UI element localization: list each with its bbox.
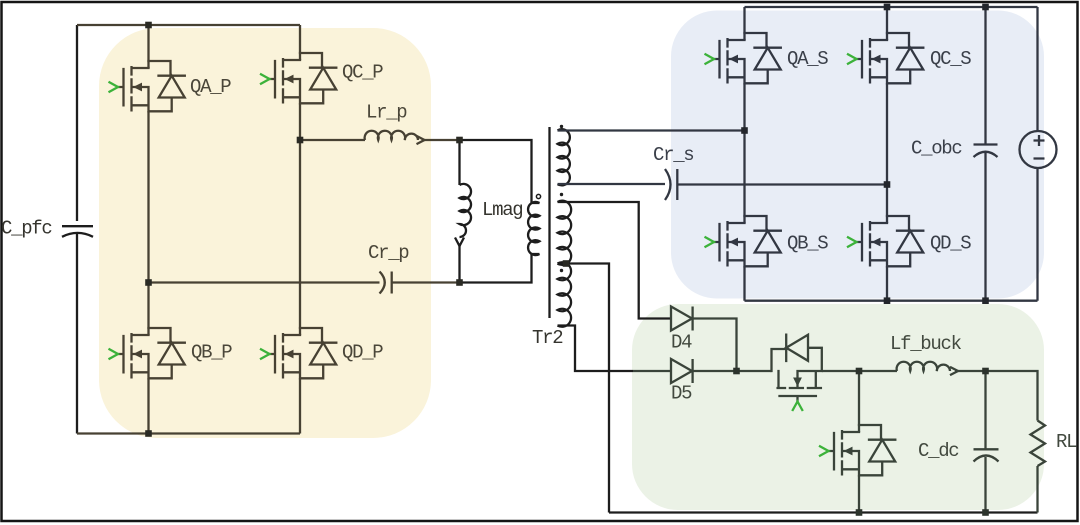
svg-text:QA_S: QA_S	[787, 48, 828, 70]
svg-text:C_dc: C_dc	[918, 440, 959, 462]
svg-text:QD_S: QD_S	[930, 233, 971, 255]
svg-text:Cr_p: Cr_p	[368, 242, 409, 264]
svg-text:QB_P: QB_P	[191, 342, 232, 364]
svg-text:Lr_p: Lr_p	[366, 102, 407, 124]
svg-text:C_obc: C_obc	[911, 138, 962, 160]
svg-text:QC_P: QC_P	[342, 62, 383, 84]
svg-text:C_pfc: C_pfc	[1, 218, 52, 240]
svg-text:QD_P: QD_P	[342, 342, 383, 364]
svg-text:D4: D4	[671, 332, 692, 354]
svg-text:Lmag: Lmag	[482, 199, 522, 221]
svg-text:D5: D5	[671, 383, 692, 405]
svg-text:QA_P: QA_P	[190, 76, 231, 98]
svg-text:Lf_buck: Lf_buck	[890, 333, 962, 355]
svg-text:Tr2: Tr2	[532, 327, 563, 349]
svg-text:Cr_s: Cr_s	[653, 144, 693, 166]
svg-text:QC_S: QC_S	[930, 48, 971, 70]
svg-text:RL: RL	[1056, 431, 1077, 453]
svg-text:QB_S: QB_S	[787, 233, 828, 255]
